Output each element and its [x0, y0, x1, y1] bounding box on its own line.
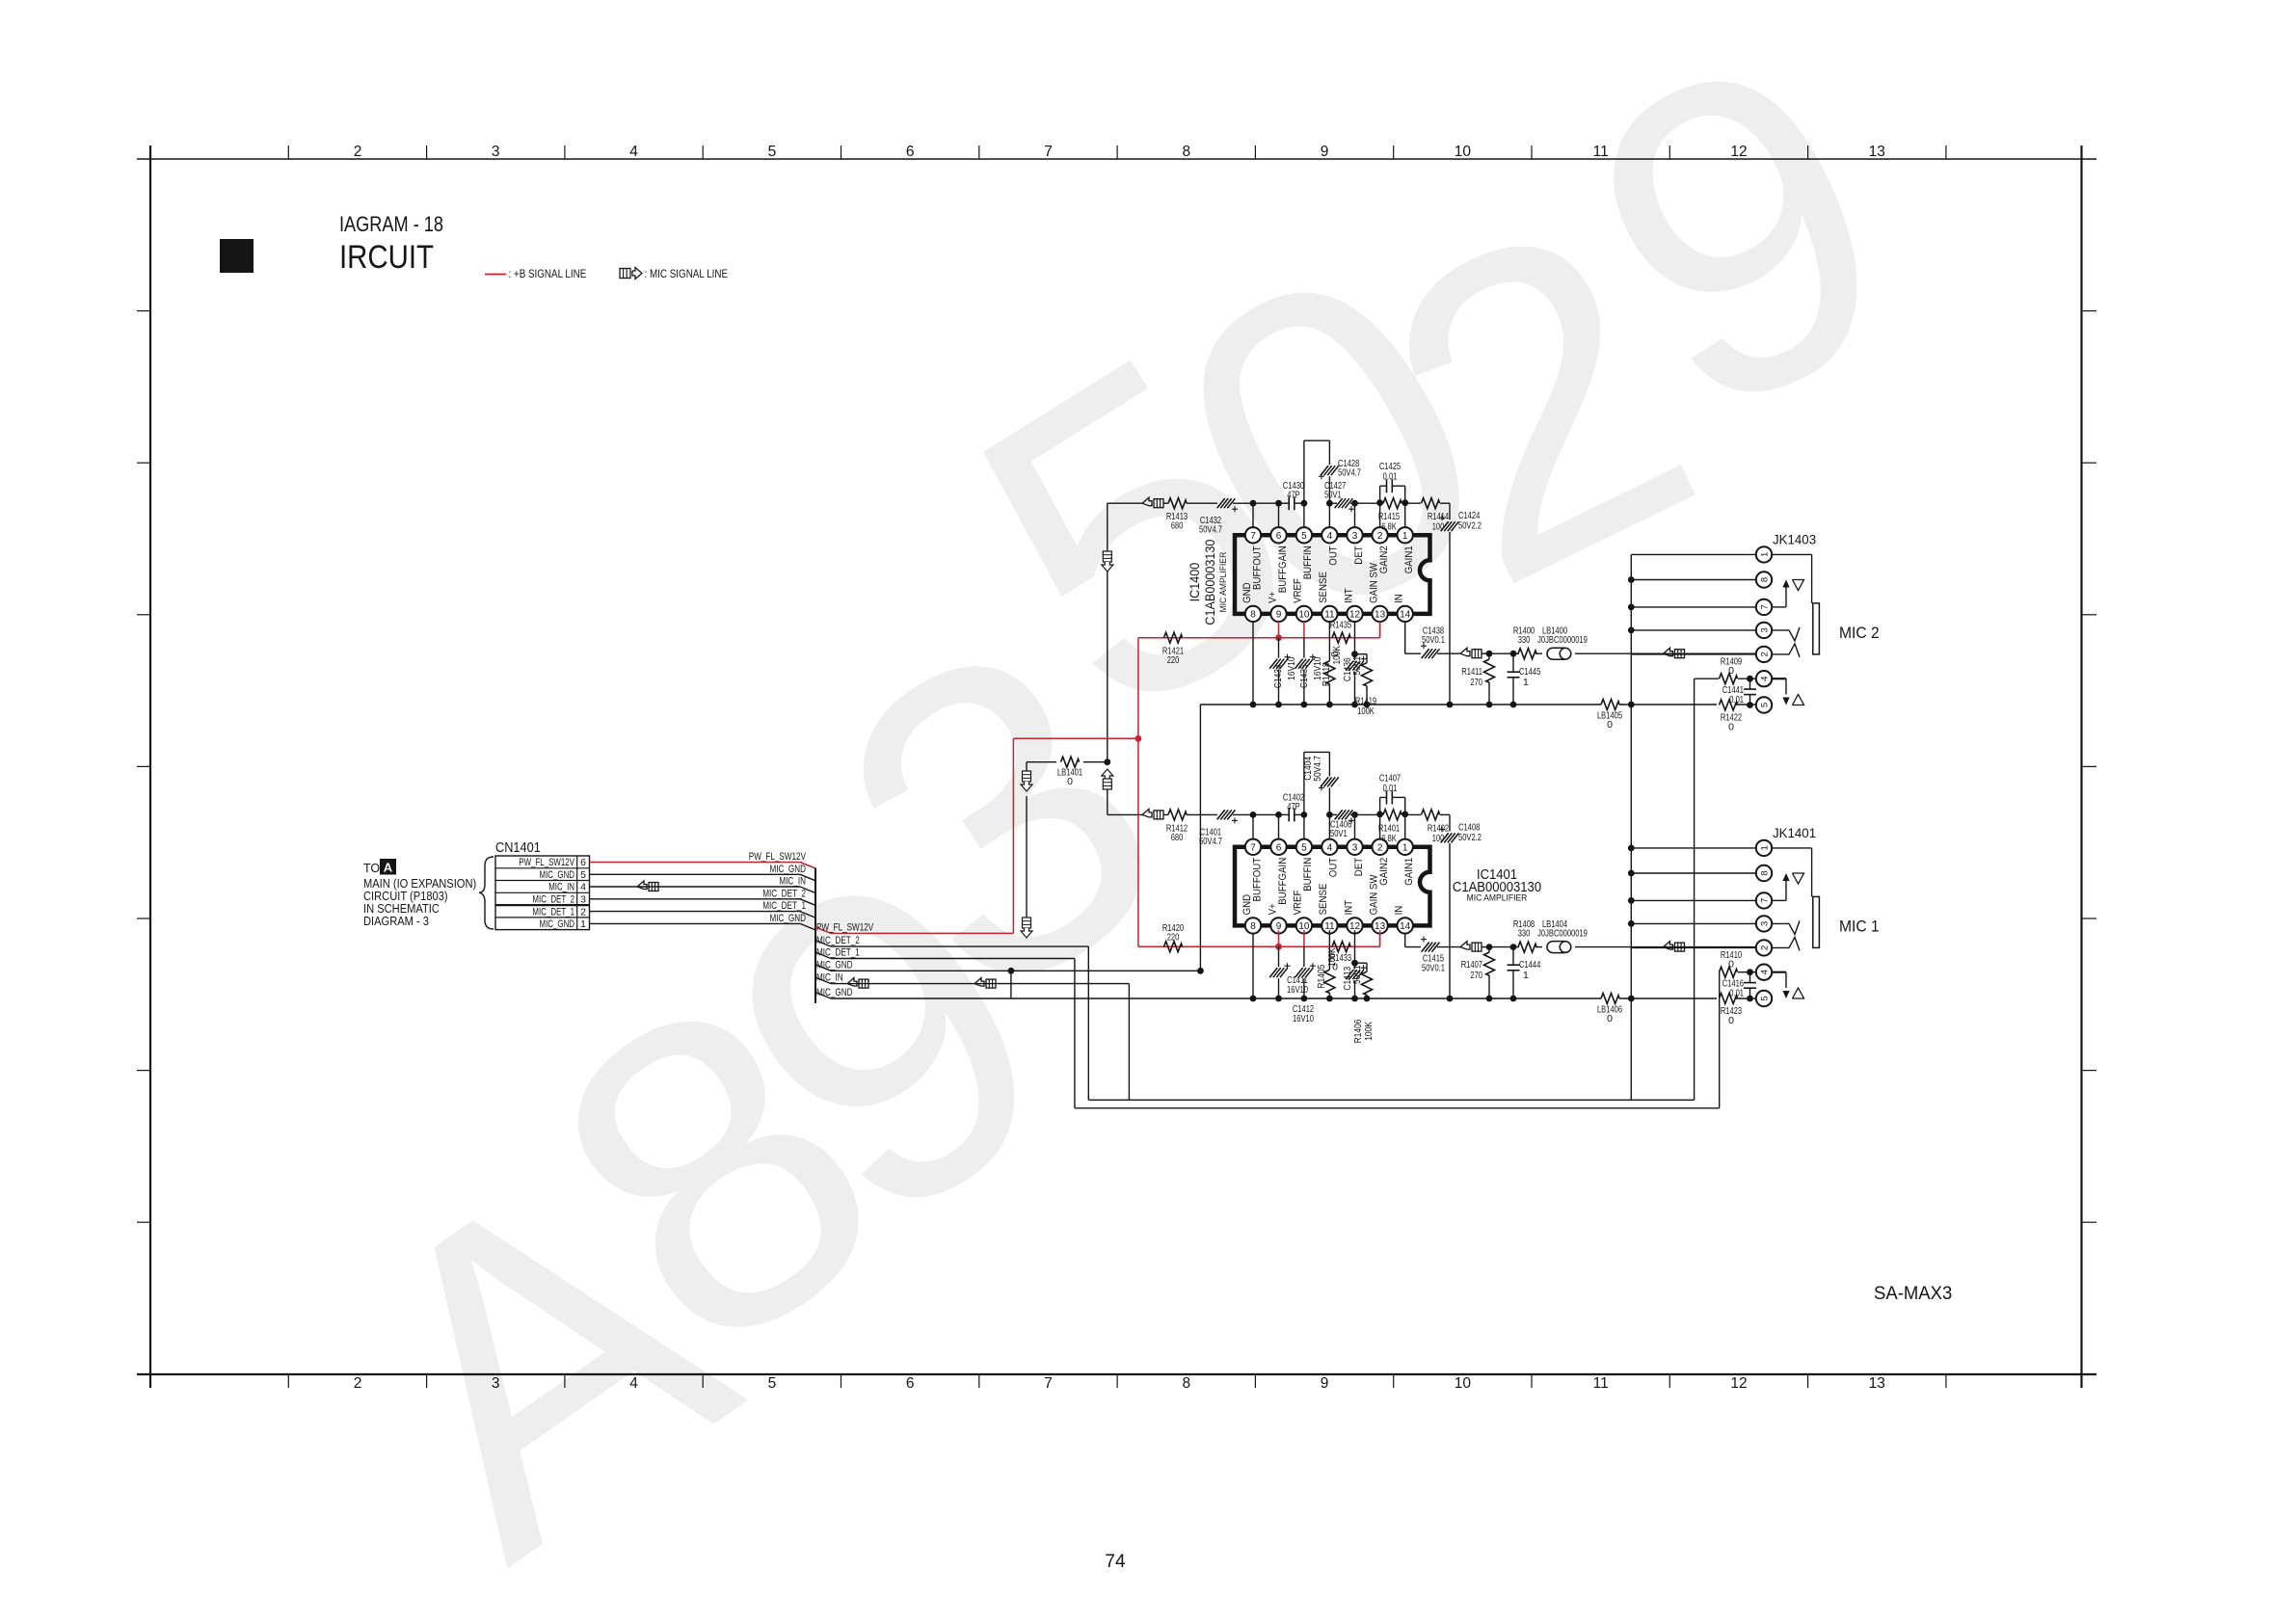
junction pin7 col — [1250, 811, 1257, 818]
wire MIC_GND lower — [815, 959, 1201, 971]
wire pin6 PW_FL_SW12V (red) — [590, 851, 816, 868]
pin8 col to rail A — [1252, 622, 1254, 705]
svg-text:13: 13 — [1869, 1375, 1885, 1392]
resistor R1411 270 vertical — [1461, 653, 1494, 705]
inductor LB1405 on rail A — [1597, 700, 1622, 732]
svg-text:SENSE: SENSE — [1318, 572, 1329, 603]
svg-text:16V10: 16V10 — [1287, 984, 1308, 996]
connector brace — [479, 857, 494, 929]
svg-text:50V1: 50V1 — [1351, 965, 1363, 984]
svg-text:4: 4 — [1759, 970, 1770, 974]
svg-text:0: 0 — [1067, 776, 1073, 787]
rail A bus junction — [1628, 702, 1635, 708]
IC1400 designator — [1187, 539, 1229, 625]
svg-text:680: 680 — [1171, 832, 1184, 843]
svg-text:14: 14 — [1400, 921, 1411, 932]
MIC_DET_2 drop — [1087, 946, 1089, 1100]
bus vertical — [814, 868, 816, 1004]
svg-text:MIC_GND: MIC_GND — [540, 918, 575, 930]
junction pin6 col — [1275, 500, 1282, 507]
svg-text:2: 2 — [580, 906, 586, 918]
svg-text:MIC_DET_1: MIC_DET_1 — [532, 906, 574, 918]
mic symbol — [1460, 648, 1470, 656]
JK1403 pin5 — [1756, 697, 1772, 712]
svg-text:TO: TO — [363, 862, 380, 875]
svg-text:50V4.7: 50V4.7 — [1338, 467, 1361, 479]
svg-text:9: 9 — [1276, 610, 1282, 621]
cap loop C1404 50V4.7 — [1302, 752, 1339, 814]
svg-text:1: 1 — [1759, 552, 1770, 557]
IC1400 pin 1 — [1398, 527, 1413, 543]
svg-text:50V0.1: 50V0.1 — [1422, 634, 1445, 646]
svg-text:J0JBC0000019: J0JBC0000019 — [1537, 634, 1588, 646]
title black square — [220, 239, 254, 273]
junction pin5 col — [1301, 811, 1308, 818]
svg-text:MIC_IN: MIC_IN — [779, 876, 806, 888]
capacitor C1441 — [1722, 678, 1756, 705]
op-amp IC1400 block — [1235, 535, 1430, 614]
capacitor C1432 50V4.7 (electrolytic) — [1199, 498, 1253, 536]
IC1401 pin 9 — [1270, 918, 1286, 933]
svg-text:C1435: C1435 — [1298, 664, 1310, 688]
border side ticks — [137, 311, 2096, 1223]
svg-text:3: 3 — [1352, 531, 1358, 542]
IC1401 pin 7 — [1245, 839, 1261, 855]
resistor R1414 100 — [1405, 498, 1450, 533]
IC1401 pin 12 — [1347, 918, 1362, 933]
svg-text:5: 5 — [1301, 842, 1307, 853]
svg-text:GND: GND — [1241, 894, 1253, 916]
capacitor C1435 — [1295, 638, 1316, 705]
resistor 100K vertical pin11 — [1321, 622, 1343, 705]
JK1403 pin4 — [1756, 671, 1772, 686]
shield symbol down (upper) — [1103, 551, 1111, 562]
svg-text:MIC 2: MIC 2 — [1839, 624, 1880, 642]
svg-text:MIC AMPLIFIER: MIC AMPLIFIER — [1467, 893, 1528, 904]
svg-text:47P: 47P — [1287, 801, 1300, 812]
JK1403 pin2 — [1756, 647, 1772, 662]
IC1400 pin 11 — [1322, 606, 1337, 622]
pin8 col to rail B — [1252, 933, 1254, 998]
legend mic signal line — [620, 267, 728, 280]
svg-text:BUFFOUT: BUFFOUT — [1251, 545, 1263, 590]
red junction — [1135, 735, 1142, 742]
cap labels — [1287, 974, 1314, 1024]
svg-text:MIC_DET_2: MIC_DET_2 — [532, 894, 574, 906]
capacitor C1427 50V1 (electrolytic) — [1324, 480, 1355, 512]
JK1403 ring contact — [1772, 644, 1800, 657]
JK1401 pin8 wire — [1631, 872, 1756, 874]
border frame — [137, 146, 2096, 1388]
junction R-col — [1486, 944, 1493, 950]
junction pin4 col — [1326, 811, 1333, 818]
cap labels rotated — [1272, 656, 1323, 688]
svg-text:16V10: 16V10 — [1286, 656, 1297, 679]
svg-text:IN: IN — [1394, 594, 1405, 603]
IC1401 pin 4 — [1322, 839, 1337, 855]
svg-text:0.01: 0.01 — [1383, 471, 1398, 483]
wire pin3 MIC_DET_2 — [590, 888, 816, 905]
svg-text:JK1403: JK1403 — [1773, 531, 1816, 546]
JK1401 pin2 — [1756, 940, 1772, 955]
svg-text:INT: INT — [1343, 900, 1354, 916]
svg-text:2: 2 — [1759, 945, 1770, 950]
svg-text:10: 10 — [1298, 610, 1310, 621]
svg-text:GAIN1: GAIN1 — [1403, 545, 1415, 573]
wire MIC_DET_2 lower — [815, 935, 1088, 946]
resistor R1415 6.8K — [1378, 498, 1402, 533]
capacitor C1406 50V1 (electrolytic) — [1329, 810, 1354, 839]
resistor R1402 100 — [1405, 810, 1450, 844]
svg-text:CN1401: CN1401 — [495, 839, 541, 856]
JK1403 pin8 wire — [1631, 579, 1756, 581]
svg-text:100K: 100K — [1363, 1022, 1375, 1041]
svg-text:0: 0 — [1728, 1015, 1734, 1026]
svg-text:0.01: 0.01 — [1383, 783, 1398, 794]
svg-text:4: 4 — [629, 144, 638, 160]
JK1401 pin3 — [1756, 916, 1772, 931]
svg-text:6: 6 — [906, 1375, 915, 1392]
C1424 drop to rail — [1449, 532, 1451, 705]
capacitor C1412 — [1295, 946, 1316, 998]
svg-text:C1434: C1434 — [1272, 664, 1284, 688]
IC1400 pin 12 — [1347, 606, 1362, 622]
svg-text:GND: GND — [1241, 582, 1253, 603]
svg-text:50V2.2: 50V2.2 — [1458, 520, 1482, 532]
red corner to pin13 IC1400 — [1379, 622, 1381, 638]
svg-text:R1418: R1418 — [1321, 662, 1332, 686]
svg-text:GAIN2: GAIN2 — [1378, 858, 1390, 886]
svg-text:12: 12 — [1730, 1375, 1747, 1392]
IC1401 pin 5 — [1296, 839, 1312, 855]
mic symbols on MIC_IN lower — [847, 978, 857, 987]
wire PW_FL_SW12V lower (red) — [815, 921, 1013, 933]
IC1400 pin 8 — [1245, 606, 1261, 622]
svg-text:0: 0 — [1728, 959, 1734, 971]
JK1403 sleeve — [1813, 603, 1820, 654]
svg-text:A: A — [384, 861, 393, 875]
JK1401 switch 4->5 — [1772, 972, 1804, 998]
cap loop C1425 0.01 over R1415 6.8K — [1379, 461, 1405, 503]
svg-text:MIC_GND: MIC_GND — [770, 913, 807, 924]
svg-text:12: 12 — [1730, 144, 1747, 160]
junction — [1747, 969, 1753, 975]
svg-text:10: 10 — [1455, 144, 1472, 160]
svg-text:BUFFIN: BUFFIN — [1302, 858, 1314, 891]
JK1401 pin7 — [1756, 892, 1772, 908]
junction pin5 col — [1301, 500, 1308, 507]
svg-text:MIC AMPLIFIER: MIC AMPLIFIER — [1218, 552, 1229, 613]
jack bus vertical — [1630, 554, 1632, 1100]
IC1400 pin 2 — [1372, 527, 1387, 543]
wire pin4 MIC_IN — [590, 876, 816, 893]
svg-text:13: 13 — [1869, 144, 1885, 160]
svg-text:1: 1 — [1402, 842, 1408, 853]
ruler ticks bottom — [288, 1374, 1946, 1388]
svg-text:1: 1 — [580, 918, 586, 930]
resistor R1407 270 vertical — [1461, 947, 1495, 998]
red stub pin10 — [1303, 930, 1305, 946]
IC1401 designator — [1453, 867, 1541, 904]
svg-text:7: 7 — [1759, 604, 1770, 609]
svg-text:4: 4 — [1759, 677, 1770, 681]
svg-text:IC1400: IC1400 — [1187, 563, 1202, 602]
svg-text:50V0.1: 50V0.1 — [1422, 963, 1445, 974]
svg-text:DET: DET — [1353, 858, 1365, 877]
IC1401 pin 14 — [1398, 918, 1413, 933]
IC1400 pin 4 — [1322, 527, 1337, 543]
ruler ticks top — [288, 146, 1946, 159]
IC1400 pin 9 — [1270, 606, 1286, 622]
JK1403 pin1 wire — [1631, 553, 1756, 555]
JK1401 pin3 wire — [1631, 922, 1756, 924]
svg-text:50V4.7: 50V4.7 — [1199, 836, 1222, 847]
IC1401 pin 3 — [1347, 839, 1362, 855]
svg-text:MAIN (IO EXPANSION): MAIN (IO EXPANSION) — [363, 877, 476, 891]
svg-text:7: 7 — [1759, 898, 1770, 903]
svg-text:330: 330 — [1518, 634, 1531, 646]
wire pin14 drop — [1404, 622, 1406, 653]
svg-text:BUFFIN: BUFFIN — [1302, 545, 1314, 579]
svg-text:50V1: 50V1 — [1351, 656, 1363, 676]
capacitor C1434 — [1269, 638, 1290, 705]
svg-text:4: 4 — [1327, 842, 1333, 853]
svg-text:0: 0 — [1728, 665, 1734, 677]
resistor R1420 220 on red rail — [1162, 922, 1184, 952]
mic symbol near jack — [1664, 942, 1673, 950]
svg-text:PW_FL_SW12V: PW_FL_SW12V — [816, 921, 874, 933]
resistor R1400 330 — [1513, 625, 1542, 659]
rail B bus junction — [1628, 996, 1635, 1002]
IC1401 pin 8 — [1245, 918, 1261, 933]
inductor LB1406 on rail B — [1597, 994, 1622, 1025]
red stub pin9 — [1278, 622, 1280, 638]
svg-text:BUFFOUT: BUFFOUT — [1251, 858, 1263, 902]
capacitor C1444 1 vertical — [1508, 947, 1541, 998]
capacitor C1413 50V1 under pin12 — [1342, 930, 1373, 998]
junction — [1747, 702, 1753, 708]
mic symbol — [1460, 942, 1470, 950]
svg-text:2: 2 — [354, 1375, 362, 1392]
svg-text:BUFFGAIN: BUFFGAIN — [1277, 858, 1289, 905]
inductor LB1404 — [1537, 918, 1756, 953]
capacitor C1415 (electrolytic) — [1421, 937, 1461, 974]
capacitor C1411 — [1269, 946, 1290, 998]
JK1403 pin8 — [1756, 572, 1772, 587]
wire MIC_IN lower — [815, 972, 1129, 984]
svg-text:0: 0 — [1728, 722, 1734, 733]
svg-text:100: 100 — [1432, 521, 1445, 533]
IC1401 pin 2 — [1372, 839, 1387, 855]
JK1401 pin2 wire — [1631, 946, 1756, 948]
shielded column x1148.8 — [1107, 503, 1108, 551]
IC1400 pin 13 — [1372, 606, 1387, 622]
svg-text:4: 4 — [629, 1375, 638, 1392]
svg-text:3: 3 — [492, 144, 500, 160]
svg-text:11: 11 — [1593, 1375, 1609, 1392]
corner rail A down — [1199, 705, 1201, 971]
svg-text:3: 3 — [580, 894, 586, 906]
svg-text:2: 2 — [1759, 652, 1770, 656]
svg-text:BUFFGAIN: BUFFGAIN — [1277, 545, 1289, 593]
svg-text:GAIN SW: GAIN SW — [1368, 562, 1379, 602]
svg-text:4: 4 — [1327, 531, 1333, 542]
capacitor C1408 50V2.2 (electrolytic) — [1439, 814, 1482, 843]
svg-text:100K: 100K — [1326, 947, 1338, 967]
svg-text:8: 8 — [1250, 921, 1256, 932]
resistor R1433 0 on rail — [1330, 942, 1351, 973]
wire MIC_GND bottom — [815, 987, 1201, 998]
svg-text:MIC_IN: MIC_IN — [548, 882, 574, 893]
svg-text:50V4.7: 50V4.7 — [1312, 756, 1323, 782]
MIC_IN drop to bottom loop — [1128, 984, 1130, 1101]
svg-text:OUT: OUT — [1328, 858, 1340, 878]
mic symbol feed R1413 680 — [1142, 497, 1152, 506]
JK1403 pin1 right — [1772, 553, 1812, 555]
capacitor C1438 (electrolytic) — [1421, 625, 1461, 659]
svg-text:0: 0 — [1607, 719, 1613, 731]
IC1400 pin 7 — [1245, 527, 1261, 543]
JK1403 switch 7->8 — [1772, 580, 1804, 607]
JK1403 switch 4->5 — [1772, 678, 1804, 705]
JK1403 tip contact — [1772, 627, 1800, 641]
JK1401 tip contact — [1772, 920, 1800, 934]
svg-text:VREF: VREF — [1293, 890, 1304, 915]
svg-text:100: 100 — [1432, 833, 1445, 844]
svg-text:CIRCUIT (P1803): CIRCUIT (P1803) — [363, 890, 448, 903]
svg-text:7: 7 — [1044, 1375, 1053, 1392]
svg-text:JK1401: JK1401 — [1773, 825, 1816, 840]
svg-text:2: 2 — [354, 144, 362, 160]
svg-text:3: 3 — [1759, 921, 1770, 926]
svg-text:2: 2 — [1377, 842, 1383, 853]
JK1403 pin3 — [1756, 623, 1772, 638]
svg-text:1: 1 — [1523, 970, 1529, 981]
junction LB1401 — [1104, 758, 1110, 765]
red stub pin10 — [1303, 622, 1305, 638]
svg-text:0: 0 — [1607, 1013, 1613, 1024]
svg-text:GAIN1: GAIN1 — [1403, 858, 1415, 886]
svg-text:OUT: OUT — [1328, 545, 1340, 566]
junction pin6 col — [1275, 811, 1282, 818]
svg-text:10: 10 — [1455, 1375, 1472, 1392]
red corner to pin13 IC1401 — [1379, 933, 1381, 946]
JK1403 pin1 — [1756, 546, 1772, 562]
LB1401 left drop w/ shield — [1026, 762, 1028, 771]
svg-text:MIC_GND: MIC_GND — [540, 869, 575, 881]
resistor R1408 330 — [1513, 918, 1542, 952]
svg-text:MIC_GND: MIC_GND — [816, 987, 853, 998]
svg-text:270: 270 — [1470, 677, 1482, 688]
red stub pin9 — [1278, 930, 1280, 946]
junction pin3 col — [1351, 811, 1358, 818]
red riser to R1421 rail — [1137, 638, 1139, 739]
JK1401 pin4 — [1756, 965, 1772, 980]
svg-text:MIC_DET_1: MIC_DET_1 — [816, 947, 860, 959]
JK1401 pin1 — [1756, 840, 1772, 856]
svg-text:6: 6 — [580, 857, 586, 868]
svg-text:50V2.2: 50V2.2 — [1458, 832, 1482, 843]
resistor R1435 0 on rail — [1329, 620, 1351, 657]
svg-text:IAGRAM - 18: IAGRAM - 18 — [339, 212, 443, 236]
resistor R1422 0 — [1720, 700, 1743, 733]
svg-text:3: 3 — [1759, 627, 1770, 632]
red riser x1051.4 — [1012, 738, 1014, 933]
svg-text:: +B SIGNAL LINE: : +B SIGNAL LINE — [509, 267, 587, 280]
svg-text:13: 13 — [1375, 610, 1386, 621]
svg-text:50V4.7: 50V4.7 — [1199, 524, 1222, 536]
resistor R1421 220 on red rail — [1162, 632, 1184, 666]
IC1401 pin 1 — [1398, 839, 1413, 855]
svg-text:DIAGRAM - 3: DIAGRAM - 3 — [363, 915, 429, 928]
JK1401 pin5 — [1756, 991, 1772, 1006]
wire feed row y522 — [1108, 502, 1143, 504]
ruler numbers top — [354, 144, 1885, 160]
svg-text:680: 680 — [1171, 520, 1184, 532]
svg-text:330: 330 — [1518, 928, 1531, 940]
svg-text:MIC_DET_2: MIC_DET_2 — [762, 888, 806, 899]
capacitor C1416 — [1722, 972, 1756, 999]
svg-text:6.8K: 6.8K — [1381, 521, 1397, 533]
JK1401 pin1 right — [1772, 847, 1812, 849]
svg-text:IN: IN — [1394, 906, 1405, 916]
junction pin4 col — [1326, 500, 1333, 507]
inductor LB1401 — [1027, 757, 1108, 787]
junction pin2 col — [1376, 499, 1383, 506]
svg-text:74: 74 — [1105, 1552, 1126, 1572]
IC1400 pin 5 — [1296, 527, 1312, 543]
ruler numbers bottom — [354, 1375, 1885, 1392]
wire MIC_DET_1 lower — [815, 947, 1075, 959]
svg-text:1: 1 — [1402, 531, 1408, 542]
svg-text:47P: 47P — [1287, 490, 1300, 501]
resistor 100K vertical pin11 — [1316, 930, 1338, 998]
svg-text:SENSE: SENSE — [1318, 884, 1329, 916]
svg-text:9: 9 — [1321, 1375, 1329, 1392]
svg-text:IN SCHEMATIC: IN SCHEMATIC — [363, 902, 440, 916]
rail B (IC1401 section ground) — [1201, 996, 1756, 1002]
JK1401 pin7 wire — [1631, 899, 1756, 901]
JK1401 switch 7->8 — [1772, 873, 1804, 900]
svg-text:5: 5 — [580, 869, 586, 881]
inductor LB1400 — [1537, 625, 1756, 660]
mic symbol feed R1412 680 — [1142, 809, 1152, 817]
svg-text:PW_FL_SW12V: PW_FL_SW12V — [749, 851, 807, 863]
capacitor C1445 1 vertical — [1508, 653, 1541, 705]
IC1401 pin 6 — [1270, 839, 1286, 855]
svg-text:J0JBC0000019: J0JBC0000019 — [1537, 928, 1588, 940]
red rail y982 — [1138, 945, 1380, 947]
svg-text:50V1: 50V1 — [1324, 490, 1342, 501]
cap loop C1428 50V4.7 — [1304, 440, 1361, 503]
svg-text:MIC_GND: MIC_GND — [816, 959, 853, 971]
IC1400 pin 3 — [1347, 527, 1362, 543]
resistor R1423 0 — [1720, 994, 1743, 1027]
rail A (IC1400 section ground) — [1200, 702, 1756, 708]
svg-text:SA-MAX3: SA-MAX3 — [1874, 1283, 1952, 1304]
connector CN1401 table — [495, 856, 590, 930]
svg-text:MIC 1: MIC 1 — [1839, 917, 1880, 935]
junction R-col — [1486, 651, 1493, 657]
IC1401 pin 10 — [1296, 918, 1312, 933]
svg-text:1: 1 — [1759, 845, 1770, 850]
svg-text:MIC_IN: MIC_IN — [816, 972, 843, 984]
svg-text:DET: DET — [1353, 545, 1365, 565]
wire pin5 MIC_GND — [590, 864, 816, 881]
svg-text:14: 14 — [1400, 610, 1411, 621]
resistor R1401 6.8K — [1378, 810, 1402, 844]
svg-text:6: 6 — [906, 144, 915, 160]
